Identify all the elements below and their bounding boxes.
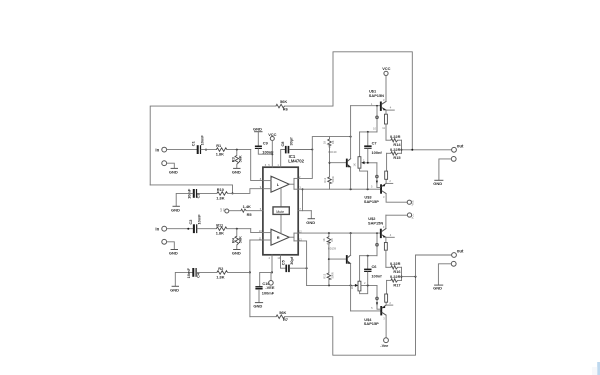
wire bbox=[197, 228, 216, 230]
capacitor C8 bbox=[280, 137, 313, 167]
svg-text:500R: 500R bbox=[330, 272, 334, 278]
svg-text:GND: GND bbox=[253, 304, 262, 309]
svg-text:R7: R7 bbox=[283, 317, 288, 322]
wire bias rail B bbox=[360, 255, 377, 257]
svg-text:C1: C1 bbox=[191, 140, 196, 146]
svg-text:R12: R12 bbox=[323, 177, 327, 182]
ground C3 bbox=[171, 206, 180, 212]
svg-text:56K: 56K bbox=[237, 236, 242, 243]
svg-text:BD139: BD139 bbox=[328, 247, 336, 251]
svg-text:R4: R4 bbox=[231, 237, 236, 243]
capacitor C1 bbox=[191, 135, 207, 154]
svg-text:0.22R: 0.22R bbox=[390, 147, 401, 152]
svg-text:C3: C3 bbox=[196, 193, 201, 199]
svg-text:1K: 1K bbox=[322, 238, 326, 241]
resistor R10 bbox=[216, 187, 232, 200]
node out gnd A bbox=[439, 157, 456, 180]
node out gnd B bbox=[438, 261, 456, 284]
wire source A jog bbox=[298, 136, 351, 179]
svg-text:0.22R: 0.22R bbox=[390, 274, 401, 279]
resistor R8 1K bias A bbox=[322, 137, 334, 177]
node VCC US1 bbox=[382, 66, 390, 102]
svg-text:1.8K: 1.8K bbox=[216, 152, 224, 157]
svg-text:1K: 1K bbox=[322, 141, 326, 144]
svg-text:-VEE: -VEE bbox=[411, 200, 415, 206]
resistor R6 bbox=[276, 99, 289, 111]
svg-text:GND: GND bbox=[232, 170, 241, 175]
svg-text:10mF: 10mF bbox=[196, 214, 201, 225]
capacitor C9 bbox=[255, 141, 274, 155]
terminal mute input bbox=[219, 208, 241, 213]
resistor R11 bbox=[216, 222, 227, 235]
capacitor C7 bbox=[364, 132, 382, 164]
svg-text:C9: C9 bbox=[263, 141, 269, 146]
ground C9 bbox=[253, 127, 262, 146]
resistor R4 bbox=[231, 229, 243, 249]
ground input B bbox=[169, 250, 178, 256]
svg-text:10mF: 10mF bbox=[199, 135, 204, 146]
svg-text:R2: R2 bbox=[218, 266, 224, 271]
wire bbox=[176, 193, 193, 206]
svg-text:1.4K: 1.4K bbox=[243, 204, 251, 209]
wire bbox=[227, 149, 263, 181]
resistor R1 bbox=[216, 143, 227, 156]
svg-text:0.22R: 0.22R bbox=[390, 261, 401, 266]
svg-text:SAP15N: SAP15N bbox=[368, 220, 383, 225]
svg-text:GND: GND bbox=[433, 286, 442, 291]
capacitor C3 bbox=[187, 188, 217, 199]
svg-text:1.8K: 1.8K bbox=[216, 231, 224, 236]
svg-text:GND: GND bbox=[306, 220, 315, 225]
svg-text:R17: R17 bbox=[393, 282, 400, 287]
svg-text:-VEE: -VEE bbox=[265, 285, 274, 290]
resistor R13 bbox=[323, 272, 335, 285]
svg-text:C6: C6 bbox=[372, 264, 378, 269]
svg-text:1.8K: 1.8K bbox=[216, 195, 224, 200]
svg-text:100nf: 100nf bbox=[372, 150, 383, 155]
wire wiper rail B bbox=[307, 284, 356, 286]
terminal -VEE A bbox=[407, 200, 414, 206]
wire top feedback loop A bbox=[150, 52, 412, 185]
svg-text:R6: R6 bbox=[283, 107, 289, 112]
svg-text:R11: R11 bbox=[216, 222, 224, 227]
ground C4 bbox=[170, 286, 179, 292]
svg-text:R: R bbox=[277, 235, 280, 240]
resistor R17 bbox=[387, 274, 402, 294]
svg-text:1K: 1K bbox=[350, 286, 354, 289]
node in gnd A bbox=[162, 161, 175, 168]
svg-text:C8: C8 bbox=[280, 141, 285, 147]
wire US4 base rail bbox=[351, 285, 381, 311]
resistor R12 bbox=[323, 176, 335, 189]
svg-text:C5: C5 bbox=[281, 259, 286, 265]
transistor US1 SAP15N bbox=[351, 88, 395, 140]
node out A bbox=[452, 143, 464, 152]
IC1 box bbox=[263, 154, 305, 255]
transistor US4 SAP15P bbox=[364, 285, 393, 337]
resistor R7 bbox=[276, 310, 288, 322]
wire source rail B bbox=[298, 232, 380, 234]
svg-text:GND: GND bbox=[169, 170, 178, 175]
svg-text:VCC: VCC bbox=[410, 213, 414, 219]
wire output node A bbox=[401, 140, 452, 153]
capacitor C6 bbox=[364, 256, 382, 286]
svg-text:SAP15P: SAP15P bbox=[364, 321, 379, 326]
svg-text:GND: GND bbox=[232, 251, 241, 256]
pin numbers IC right bbox=[299, 175, 302, 242]
svg-text:56K: 56K bbox=[279, 310, 286, 315]
svg-text:1K: 1K bbox=[352, 163, 356, 166]
mute block bbox=[273, 188, 289, 233]
svg-text:in: in bbox=[155, 147, 159, 152]
potentiometer P2 bbox=[350, 256, 377, 294]
svg-text:30pf: 30pf bbox=[288, 137, 293, 146]
wire inv input A bbox=[150, 185, 263, 195]
svg-text:10mF: 10mF bbox=[186, 268, 191, 279]
wire bbox=[167, 228, 193, 230]
capacitor C2 bbox=[188, 214, 201, 233]
corner watermark bbox=[592, 362, 600, 375]
wire bbox=[201, 149, 216, 151]
transistor US3 SAP15P bbox=[364, 163, 407, 204]
svg-text:1.8K: 1.8K bbox=[216, 274, 224, 279]
svg-text:LM4702: LM4702 bbox=[288, 159, 304, 164]
svg-text:R1: R1 bbox=[216, 143, 222, 148]
svg-text:BD139: BD139 bbox=[329, 150, 337, 154]
resistor R2 bbox=[197, 266, 250, 279]
transistor T1 BD139 bbox=[328, 137, 351, 190]
ground R4 bbox=[232, 250, 241, 256]
svg-text:in: in bbox=[155, 226, 159, 231]
terminal VCC B bbox=[386, 213, 415, 219]
svg-text:-Vee: -Vee bbox=[380, 343, 389, 348]
svg-text:0.22R: 0.22R bbox=[390, 134, 401, 139]
ground C10 bbox=[253, 303, 262, 309]
wire mute gnd bbox=[298, 188, 311, 218]
svg-text:GND: GND bbox=[433, 181, 442, 186]
svg-text:100nf: 100nf bbox=[371, 273, 382, 278]
svg-text:GND: GND bbox=[253, 127, 262, 132]
ground input A bbox=[169, 168, 178, 174]
svg-text:C4: C4 bbox=[195, 272, 200, 278]
ground out A bbox=[433, 180, 443, 186]
ground mute bbox=[306, 219, 315, 225]
svg-text:out: out bbox=[457, 143, 464, 148]
wire bbox=[167, 149, 197, 151]
svg-text:GND: GND bbox=[169, 251, 178, 256]
wire sink B jog bbox=[298, 241, 306, 286]
resistor R15 bbox=[387, 147, 402, 171]
svg-text:GND: GND bbox=[170, 287, 179, 292]
svg-text:100nF: 100nF bbox=[262, 149, 274, 154]
svg-text:out: out bbox=[457, 249, 464, 254]
op-amp R bbox=[263, 229, 298, 245]
wire sink rail A bbox=[298, 188, 380, 190]
terminal -Vee B bbox=[380, 338, 389, 348]
node VCC IC bbox=[268, 132, 276, 167]
resistor R14 bbox=[386, 134, 402, 147]
ground out B bbox=[433, 285, 443, 291]
terminal -VEE supply bbox=[265, 272, 274, 290]
svg-text:R13: R13 bbox=[323, 273, 327, 278]
svg-text:R8: R8 bbox=[331, 140, 335, 144]
pin numbers IC top bottom bbox=[265, 163, 281, 260]
svg-text:56K: 56K bbox=[237, 155, 242, 162]
wire bottom feedback loop B bbox=[250, 240, 416, 355]
resistor R16 bbox=[386, 261, 402, 274]
svg-text:Mute: Mute bbox=[276, 210, 284, 214]
wire output node B bbox=[401, 255, 452, 280]
node out B bbox=[452, 249, 464, 258]
potentiometer P1 bbox=[352, 132, 377, 189]
svg-text:R5: R5 bbox=[247, 212, 253, 217]
svg-text:56K: 56K bbox=[280, 99, 287, 104]
node in A bbox=[155, 147, 166, 152]
svg-text:C7: C7 bbox=[372, 141, 377, 146]
resistor R5 bbox=[241, 204, 263, 217]
wire inv input B bbox=[249, 240, 263, 273]
resistor R9 1K bias B bbox=[322, 233, 334, 273]
node in B bbox=[155, 226, 166, 231]
svg-text:R3: R3 bbox=[231, 156, 236, 162]
capacitor C5 bbox=[281, 255, 308, 272]
capacitor C4 bbox=[175, 268, 200, 286]
svg-text:100mF: 100mF bbox=[262, 291, 275, 296]
resistor R3 bbox=[231, 150, 243, 168]
svg-text:R9: R9 bbox=[330, 238, 334, 242]
ground R3 bbox=[232, 168, 241, 174]
wire bias rail A bbox=[360, 131, 377, 133]
svg-text:VCC: VCC bbox=[382, 66, 390, 71]
node in gnd B bbox=[162, 239, 175, 249]
svg-text:500R: 500R bbox=[331, 176, 335, 182]
pin numbers IC left bbox=[259, 177, 262, 240]
svg-text:C2: C2 bbox=[188, 219, 193, 225]
svg-text:R15: R15 bbox=[393, 155, 401, 160]
svg-text:SAP15P: SAP15P bbox=[364, 199, 379, 204]
svg-text:SAP15N: SAP15N bbox=[369, 93, 384, 98]
transistor US2 SAP15N bbox=[368, 215, 394, 267]
wire -VEE rail bbox=[260, 255, 273, 286]
transistor T2 BD139 bbox=[327, 233, 351, 285]
op-amp L bbox=[263, 176, 298, 192]
svg-text:R10: R10 bbox=[217, 187, 224, 192]
svg-text:GND: GND bbox=[171, 207, 180, 212]
svg-text:30pf: 30pf bbox=[289, 256, 294, 265]
capacitor C10 bbox=[255, 281, 274, 302]
wire bbox=[227, 228, 263, 233]
